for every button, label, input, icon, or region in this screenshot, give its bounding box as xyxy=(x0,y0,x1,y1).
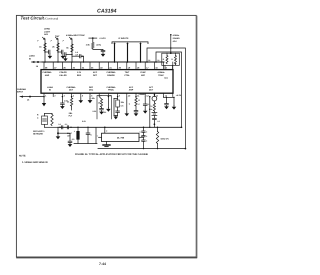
resistor R8 (pin 4) xyxy=(67,96,73,118)
wire right bottom rail xyxy=(98,148,185,150)
svg-text:CHROMA: CHROMA xyxy=(107,71,117,74)
svg-text:LIGHT: LIGHT xyxy=(44,30,51,33)
svg-text:DEMOD: DEMOD xyxy=(107,74,115,77)
IC bottom pin stubs xyxy=(44,93,173,96)
capacitor C2 xyxy=(61,50,63,54)
label network note xyxy=(33,130,45,136)
svg-text:0.01: 0.01 xyxy=(103,111,107,114)
svg-text:0.1: 0.1 xyxy=(65,123,68,126)
svg-text:ACC: ACC xyxy=(93,71,98,74)
ground for C5 xyxy=(102,52,104,54)
wire trap input xyxy=(170,35,172,54)
input bracket xyxy=(112,42,148,44)
resistor R6 xyxy=(171,53,176,63)
svg-text:FIGURE 24. TYPICAL APPLICATION: FIGURE 24. TYPICAL APPLICATION CIRCUIT F… xyxy=(75,153,148,156)
capacitor C12 (pin 12) xyxy=(143,97,151,114)
arrow chroma input xyxy=(20,96,23,98)
svg-text:0.05: 0.05 xyxy=(93,110,97,113)
wire to output node xyxy=(57,127,59,133)
capacitor C4 xyxy=(79,55,81,58)
svg-text:3: 3 xyxy=(141,140,142,143)
node DL drop xyxy=(104,126,106,128)
svg-text:4.5MHz: 4.5MHz xyxy=(158,71,165,74)
svg-text:DL-700: DL-700 xyxy=(117,137,125,140)
svg-text:3.58MHz: 3.58MHz xyxy=(139,93,146,96)
svg-text:REG: REG xyxy=(77,74,82,77)
node chroma input junction xyxy=(29,96,31,98)
capacitor C5 xyxy=(101,49,105,51)
capacitor C19 stack xyxy=(142,127,145,149)
wire pin 14 tap xyxy=(164,97,175,99)
trap box pin stubs to IC xyxy=(164,65,166,69)
wire R4 to C5 xyxy=(93,49,103,51)
wire pin1 down xyxy=(43,97,45,103)
svg-text:0.5: 0.5 xyxy=(75,51,78,54)
svg-text:4.5MHz BEAT TRAP: 4.5MHz BEAT TRAP xyxy=(66,34,85,37)
wire supply tap xyxy=(89,37,97,39)
svg-text:0.05: 0.05 xyxy=(82,120,86,123)
wire ladder right leg xyxy=(95,127,97,143)
node trap junction xyxy=(170,52,172,54)
svg-text:2: 2 xyxy=(106,130,107,133)
svg-text:ACC: ACC xyxy=(129,86,134,89)
wire right module vertical xyxy=(149,97,151,128)
IC internal block labels row 1 xyxy=(43,71,168,79)
wire network top xyxy=(45,113,53,115)
capacitor C13 xyxy=(153,116,160,125)
wire stub left to C3 xyxy=(66,54,72,56)
svg-text:4.5MHz: 4.5MHz xyxy=(173,34,180,37)
wire luma input xyxy=(32,61,43,63)
ground (pin 5) xyxy=(79,97,84,104)
node stack bottom junctions xyxy=(143,148,144,149)
ground pin1 xyxy=(42,103,46,106)
arrow luma input xyxy=(32,61,35,63)
node rail junctions xyxy=(44,61,157,63)
svg-text:CTRL: CTRL xyxy=(124,74,130,77)
svg-text:+11.2V: +11.2V xyxy=(99,37,106,40)
svg-text:TINT: TINT xyxy=(125,71,130,74)
ground for C1 xyxy=(49,54,51,56)
svg-text:KILLER: KILLER xyxy=(59,74,67,77)
resistor R3 5k xyxy=(66,44,73,52)
wire stub to C2 xyxy=(58,51,62,53)
svg-text:+4.2V: +4.2V xyxy=(176,94,182,97)
svg-text:OSC: OSC xyxy=(89,88,94,91)
wire delay line left stub xyxy=(99,136,102,138)
wire rail to delay line xyxy=(104,127,106,133)
svg-text:Test Circuit: Test Circuit xyxy=(21,16,45,21)
capacitor C6 box xyxy=(42,116,48,125)
ground output node xyxy=(57,133,59,136)
svg-text:5.6k: 5.6k xyxy=(149,108,153,111)
electrolytic C17 25uF xyxy=(67,127,80,144)
ground delay line case xyxy=(103,142,110,147)
ground shared pin 9 loop xyxy=(114,116,119,120)
node trap wire on outer loop xyxy=(170,47,172,49)
svg-text:AMP: AMP xyxy=(129,88,134,91)
wire IF input 1 xyxy=(113,43,115,62)
svg-text:(Continued): (Continued) xyxy=(45,18,59,21)
wire output stub xyxy=(58,132,70,134)
capacitor C15 on rail xyxy=(58,123,62,129)
wire pin25 branch xyxy=(71,39,73,62)
potentiometer wiper P1 xyxy=(37,37,44,42)
resistor R13 560 xyxy=(156,127,169,149)
capacitor C1 xyxy=(48,50,50,54)
node Q1 chain bottom xyxy=(154,123,156,125)
feedback loop outer xyxy=(147,48,185,149)
label CHROMA INPUT xyxy=(17,88,27,94)
potentiometer wiper P2 xyxy=(51,37,58,42)
feedback loop inner xyxy=(156,52,182,127)
svg-text:7.5: 7.5 xyxy=(150,105,153,108)
ground C7 xyxy=(69,143,71,145)
svg-text:16: 16 xyxy=(148,59,150,62)
svg-text:0.1: 0.1 xyxy=(140,131,142,134)
label R C network values xyxy=(37,114,39,120)
label 0.5 values xyxy=(75,51,79,57)
svg-text:ADJ: ADJ xyxy=(164,77,168,80)
wire delay line output xyxy=(139,136,144,138)
svg-text:CHROMA: CHROMA xyxy=(43,71,53,74)
svg-text:TRAP: TRAP xyxy=(158,74,164,77)
wire IF input 2 xyxy=(126,43,128,62)
IC top pin stubs xyxy=(44,62,173,70)
svg-text:2: 2 xyxy=(141,135,142,138)
page border frame xyxy=(16,15,197,257)
resistor R1 1k xyxy=(39,43,46,51)
IC internal block labels row 2 xyxy=(47,86,154,92)
op-amp IC U1 CA3194 body xyxy=(41,70,173,94)
svg-text:1. 500kHz AND 5MHz IN: 1. 500kHz AND 5MHz IN xyxy=(22,161,48,164)
svg-text:SOUND: SOUND xyxy=(173,37,181,40)
svg-text:LUMA: LUMA xyxy=(29,55,35,58)
capacitor C3 xyxy=(64,53,66,57)
IC bottom pin numbers xyxy=(45,94,168,97)
svg-text:SEP: SEP xyxy=(141,74,146,77)
wire chroma input to pin 1 xyxy=(20,96,44,98)
svg-text:560W 5%: 560W 5% xyxy=(161,138,170,141)
capacitor C11 (pin 10) xyxy=(125,97,131,117)
resistor R11 22k box (pin 9) xyxy=(116,96,125,116)
svg-text:INPUT: INPUT xyxy=(17,91,24,94)
wire C4 to rail xyxy=(83,56,85,62)
node luma junction xyxy=(37,61,39,63)
resistor R4 3.9k xyxy=(86,38,94,48)
svg-text:1: 1 xyxy=(97,134,98,137)
svg-text:PROC: PROC xyxy=(108,88,114,91)
label LUMA IN xyxy=(29,55,35,61)
wire IF input 3 xyxy=(139,43,141,62)
wire stub right to C4 xyxy=(72,55,79,57)
transistor Q1 (pin 13) xyxy=(152,93,157,101)
svg-text:ADJ: ADJ xyxy=(44,33,48,36)
svg-text:ADJ: ADJ xyxy=(173,40,177,43)
capacitor C18 ladder xyxy=(86,127,92,144)
svg-text:15: 15 xyxy=(157,59,159,62)
potentiometer wiper P3 xyxy=(63,37,72,42)
resistor R10 (pin 7) xyxy=(98,97,104,115)
wire top bus rail xyxy=(42,61,164,63)
resistor R9 40k (pin 6) xyxy=(88,97,96,104)
capacitor C7 xyxy=(69,133,71,141)
svg-text:NOTE:: NOTE: xyxy=(19,155,26,158)
svg-text:CHRO: CHRO xyxy=(44,28,50,31)
capacitor C16 on rail xyxy=(65,123,72,129)
wire pin27 branch xyxy=(57,39,59,62)
svg-text:SYNC: SYNC xyxy=(140,71,146,74)
svg-text:LUMA: LUMA xyxy=(47,86,53,89)
wire left ground rail xyxy=(74,143,97,145)
wire stub to C1 xyxy=(45,51,49,53)
svg-text:0.1: 0.1 xyxy=(157,120,160,123)
wire Q1 chain to rail xyxy=(153,124,155,127)
svg-text:NETWORK: NETWORK xyxy=(33,133,44,136)
svg-text:COLOR: COLOR xyxy=(59,71,67,74)
svg-text:CHROMA: CHROMA xyxy=(17,88,27,91)
svg-text:CA3194: CA3194 xyxy=(97,8,116,14)
trap network box xyxy=(162,53,180,65)
wire network bottom xyxy=(45,126,59,128)
capacitor stack labels xyxy=(140,130,148,142)
svg-text:CHROMA: CHROMA xyxy=(67,86,77,89)
label 4.5MHz SOUND ADJ xyxy=(173,34,181,43)
label CHROMA LIGHT ADJ xyxy=(44,28,51,37)
node outer loop to rail xyxy=(185,148,187,150)
svg-text:7-44: 7-44 xyxy=(99,262,106,266)
module box around pins 7-8 xyxy=(97,96,111,119)
svg-text:SEE NOTE 1: SEE NOTE 1 xyxy=(33,130,45,133)
IC top pin numbers xyxy=(45,66,168,69)
battery B1 xyxy=(152,111,157,116)
ground branch pin 14 xyxy=(172,97,177,109)
wire pin28 branch xyxy=(44,39,46,62)
delay line DL1 xyxy=(102,133,140,141)
page title Test Circuit (Continued) xyxy=(21,16,59,21)
ground inside trap box xyxy=(174,64,176,66)
node C4 junction xyxy=(81,55,84,57)
resistor R12 5.6k under Q1 xyxy=(149,101,156,111)
loop wire pin 9 xyxy=(114,98,118,115)
crystal X1 (pin 11) xyxy=(134,93,146,116)
svg-text:0.1: 0.1 xyxy=(58,123,61,126)
svg-text:1.2V: 1.2V xyxy=(77,71,82,74)
wire lower bus rail xyxy=(58,126,182,128)
svg-text:IF INPUTS: IF INPUTS xyxy=(119,37,130,40)
ground (pin 8) xyxy=(106,96,111,112)
ground for C3 xyxy=(64,56,66,58)
node supply junction xyxy=(92,37,94,39)
resistor R2 2k xyxy=(52,43,59,51)
resistor R5 xyxy=(163,53,168,63)
ground for C2 xyxy=(62,54,64,56)
node output junction xyxy=(57,132,59,134)
svg-text:(27k): (27k) xyxy=(97,43,102,46)
capacitor C8 with ground (pin 3) xyxy=(60,96,69,109)
svg-text:AMP: AMP xyxy=(45,74,50,77)
capacitor C14 with ground xyxy=(164,97,169,109)
resistor R7 xyxy=(51,115,53,126)
svg-text:CHROMA: CHROMA xyxy=(107,86,117,89)
node inner loop to rail xyxy=(181,126,183,128)
